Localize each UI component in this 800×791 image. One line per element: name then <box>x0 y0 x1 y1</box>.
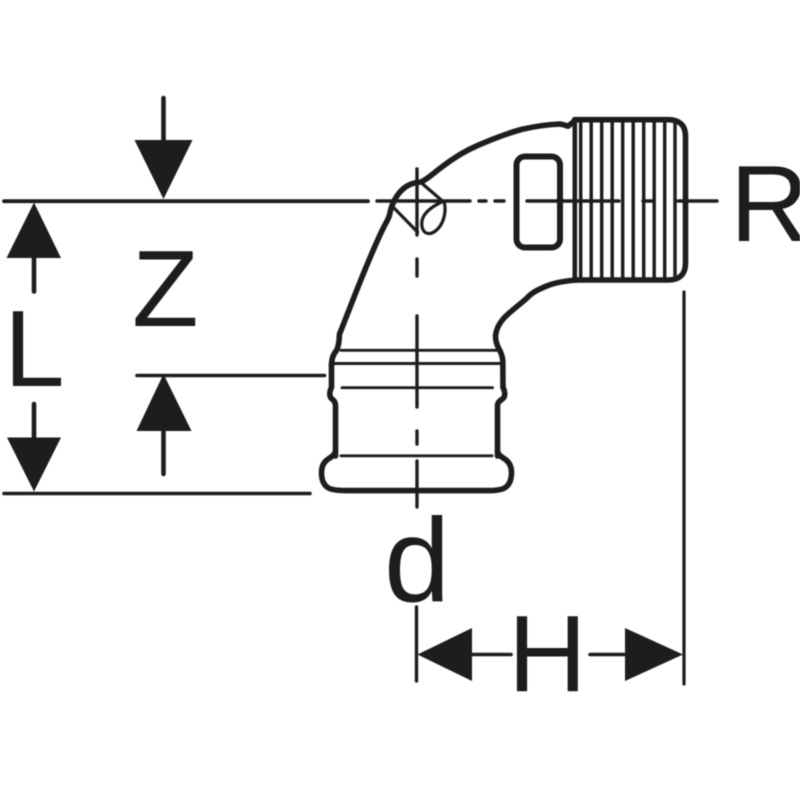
arrow: H left <box>418 628 473 681</box>
L bottom dimension line <box>4 492 310 496</box>
H dimension line pieces <box>472 653 511 657</box>
diamond boss facets <box>394 183 445 234</box>
horizontal centerline through thread axis (dash-dot) <box>377 199 717 202</box>
H right extension line <box>682 292 685 684</box>
thread block outline <box>575 120 686 280</box>
arrow: Z up <box>137 374 192 431</box>
press socket left band + cylinder wall <box>330 365 336 456</box>
socket ring lines <box>341 349 497 352</box>
svg-text:d: d <box>384 494 450 627</box>
press socket mouth bead <box>322 451 512 491</box>
elbow inner silhouette (thread block bottom to press socket right wall) <box>496 280 577 456</box>
elbow outer silhouette (press socket left wall up over bend to thread collar) <box>332 120 577 365</box>
Z bottom dimension line <box>137 374 325 378</box>
svg-text:Z: Z <box>132 228 199 350</box>
arrow: L up <box>7 203 62 259</box>
H left extension tick <box>415 607 418 681</box>
stem of L down-arrow <box>32 404 37 439</box>
stem of Z up-arrow <box>161 431 166 474</box>
arrow: H right <box>625 628 683 681</box>
svg-text:H: H <box>508 593 587 715</box>
L / Z top dimension line <box>4 199 368 203</box>
vertical centerline through socket axis (dash-dot) <box>415 169 418 507</box>
svg-text:L: L <box>4 288 65 410</box>
arrow: L down <box>7 438 61 492</box>
stem of L up-arrow <box>32 258 37 292</box>
svg-text:R: R <box>730 143 800 265</box>
thread hatch lines <box>581 122 675 277</box>
window (flat) rounded rectangle <box>517 157 561 248</box>
stem of Z top down-arrow <box>161 98 166 142</box>
arrow: down onto top line (Z upper) <box>135 140 193 199</box>
